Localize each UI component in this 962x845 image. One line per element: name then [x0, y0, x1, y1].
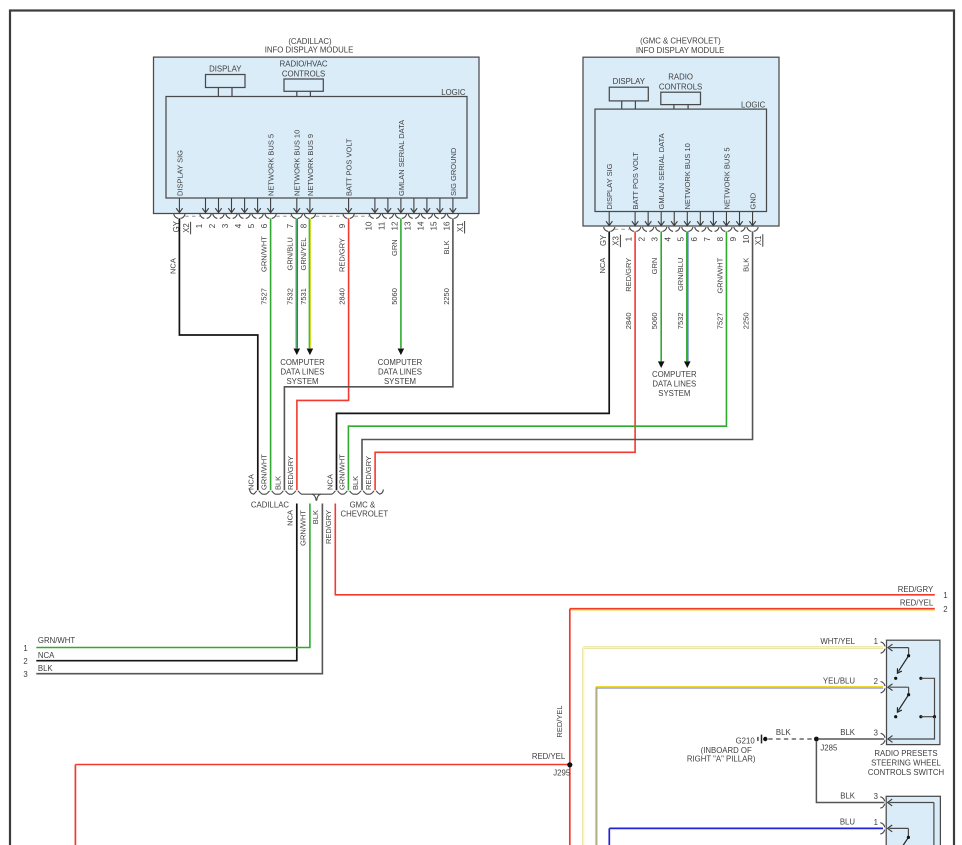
svg-text:STEERING WHEEL: STEERING WHEEL: [871, 759, 941, 768]
svg-text:BLK: BLK: [776, 728, 792, 737]
svg-text:2: 2: [23, 657, 27, 666]
svg-text:NETWORK BUS 10: NETWORK BUS 10: [293, 130, 302, 196]
svg-text:RED/YEL: RED/YEL: [900, 599, 934, 608]
svg-text:DATA LINES: DATA LINES: [281, 367, 325, 376]
svg-text:DISPLAY: DISPLAY: [209, 65, 242, 74]
svg-text:BLK: BLK: [840, 728, 856, 737]
svg-text:DATA LINES: DATA LINES: [378, 367, 422, 376]
svg-text:NCA: NCA: [38, 651, 55, 660]
svg-text:7532: 7532: [286, 288, 295, 305]
svg-text:BATT POS VOLT: BATT POS VOLT: [631, 152, 640, 210]
svg-text:SIG GROUND: SIG GROUND: [449, 147, 458, 196]
svg-text:CONTROLS: CONTROLS: [282, 69, 325, 78]
svg-text:GRN/BLU: GRN/BLU: [676, 258, 685, 291]
svg-text:13: 13: [403, 221, 412, 230]
svg-text:7532: 7532: [676, 313, 685, 330]
svg-text:5: 5: [677, 236, 686, 241]
svg-text:COMPUTER: COMPUTER: [280, 358, 325, 367]
svg-text:COMPUTER: COMPUTER: [378, 358, 423, 367]
svg-text:BATT POS VOLT: BATT POS VOLT: [345, 138, 354, 196]
svg-text:DISPLAY SIG: DISPLAY SIG: [605, 163, 614, 209]
svg-text:RED/GRY: RED/GRY: [338, 238, 347, 272]
svg-text:GRN/BLU: GRN/BLU: [286, 237, 295, 270]
svg-text:G210: G210: [736, 736, 756, 745]
svg-text:(CADILLAC): (CADILLAC): [288, 37, 332, 46]
svg-text:DISPLAY: DISPLAY: [613, 77, 646, 86]
svg-text:BLK: BLK: [442, 240, 451, 254]
svg-text:GRN: GRN: [390, 239, 399, 256]
svg-text:NCA: NCA: [247, 474, 256, 490]
svg-text:1: 1: [874, 818, 878, 827]
svg-text:RED/GRY: RED/GRY: [364, 456, 373, 490]
svg-text:CHEVROLET: CHEVROLET: [340, 510, 388, 519]
svg-text:CONTROLS: CONTROLS: [659, 82, 702, 91]
svg-text:GRN/WHT: GRN/WHT: [299, 510, 308, 546]
svg-text:GMLAN SERIAL DATA: GMLAN SERIAL DATA: [397, 120, 406, 196]
svg-text:3: 3: [874, 792, 878, 801]
svg-text:15: 15: [429, 221, 438, 230]
svg-text:2: 2: [638, 236, 647, 241]
svg-text:NETWORK BUS 10: NETWORK BUS 10: [683, 143, 692, 209]
svg-text:GRN/YEL: GRN/YEL: [299, 238, 308, 271]
svg-text:3: 3: [23, 670, 27, 679]
svg-text:NCA: NCA: [325, 474, 334, 490]
svg-text:8: 8: [299, 223, 308, 228]
svg-text:GRN/WHT: GRN/WHT: [260, 236, 269, 272]
svg-text:3: 3: [221, 223, 230, 228]
svg-text:X1: X1: [456, 222, 465, 232]
svg-text:COMPUTER: COMPUTER: [652, 370, 697, 379]
svg-text:2840: 2840: [624, 313, 633, 330]
svg-text:5060: 5060: [390, 288, 399, 305]
svg-text:4: 4: [664, 236, 673, 241]
svg-text:LOGIC: LOGIC: [441, 88, 466, 97]
svg-text:NETWORK BUS 9: NETWORK BUS 9: [306, 134, 315, 196]
svg-text:7: 7: [703, 236, 712, 241]
svg-text:GY: GY: [599, 234, 608, 246]
svg-text:8: 8: [716, 236, 725, 241]
svg-text:BLU: BLU: [840, 818, 856, 827]
svg-text:LOGIC: LOGIC: [741, 100, 766, 109]
svg-text:RED/YEL: RED/YEL: [532, 752, 566, 761]
svg-text:GRN/WHT: GRN/WHT: [337, 454, 346, 490]
svg-text:4: 4: [234, 223, 243, 228]
svg-text:7527: 7527: [715, 313, 724, 330]
svg-text:7527: 7527: [260, 288, 269, 305]
svg-text:1: 1: [943, 591, 947, 600]
svg-text:NCA: NCA: [598, 258, 607, 274]
svg-text:16: 16: [442, 221, 451, 230]
svg-text:GMLAN SERIAL DATA: GMLAN SERIAL DATA: [657, 133, 666, 209]
svg-text:BLK: BLK: [311, 510, 320, 524]
svg-text:SYSTEM: SYSTEM: [384, 377, 416, 386]
svg-text:J295: J295: [553, 768, 571, 777]
svg-text:7: 7: [286, 223, 295, 228]
svg-text:GRN/WHT: GRN/WHT: [38, 636, 75, 645]
svg-text:2: 2: [874, 677, 878, 686]
svg-text:1: 1: [625, 236, 634, 241]
svg-text:DATA LINES: DATA LINES: [652, 379, 696, 388]
svg-text:6: 6: [260, 223, 269, 228]
svg-text:1: 1: [23, 644, 27, 653]
svg-text:RED/YEL: RED/YEL: [555, 705, 564, 737]
svg-text:GRN/WHT: GRN/WHT: [715, 257, 724, 293]
svg-text:BLK: BLK: [351, 476, 360, 490]
svg-text:5: 5: [247, 223, 256, 228]
svg-text:WHT/YEL: WHT/YEL: [820, 637, 855, 646]
svg-text:INFO DISPLAY MODULE: INFO DISPLAY MODULE: [265, 46, 354, 55]
svg-text:NCA: NCA: [168, 258, 177, 274]
svg-text:11: 11: [377, 221, 386, 230]
svg-text:NETWORK BUS 5: NETWORK BUS 5: [722, 147, 731, 209]
svg-text:SYSTEM: SYSTEM: [286, 377, 318, 386]
svg-text:RED/GRY: RED/GRY: [324, 510, 333, 544]
svg-text:5060: 5060: [650, 313, 659, 330]
svg-text:3: 3: [874, 729, 878, 738]
svg-text:12: 12: [390, 221, 399, 230]
svg-text:2250: 2250: [442, 288, 451, 305]
svg-text:1: 1: [874, 637, 878, 646]
svg-text:BLK: BLK: [741, 258, 750, 272]
svg-text:9: 9: [338, 223, 347, 228]
svg-text:DISPLAY SIG: DISPLAY SIG: [175, 150, 184, 196]
svg-text:GND: GND: [748, 192, 757, 209]
svg-text:YEL/BLU: YEL/BLU: [823, 676, 855, 685]
svg-text:14: 14: [416, 221, 425, 230]
svg-text:RIGHT "A" PILLAR): RIGHT "A" PILLAR): [687, 755, 756, 764]
svg-text:RED/GRY: RED/GRY: [898, 585, 934, 594]
svg-text:CONTROLS SWITCH: CONTROLS SWITCH: [868, 768, 944, 777]
svg-text:RED/GRY: RED/GRY: [624, 258, 633, 292]
svg-text:X1: X1: [754, 236, 763, 246]
svg-text:SYSTEM: SYSTEM: [658, 389, 690, 398]
svg-text:GRN/WHT: GRN/WHT: [260, 454, 269, 490]
svg-text:7531: 7531: [299, 288, 308, 305]
svg-text:X2: X2: [182, 223, 191, 233]
svg-text:RED/GRY: RED/GRY: [286, 456, 295, 490]
svg-text:NETWORK BUS 5: NETWORK BUS 5: [267, 134, 276, 196]
svg-text:3: 3: [651, 236, 660, 241]
svg-text:INFO DISPLAY MODULE: INFO DISPLAY MODULE: [636, 46, 725, 55]
svg-text:2250: 2250: [741, 313, 750, 330]
svg-text:GRN: GRN: [650, 258, 659, 275]
svg-text:10: 10: [742, 234, 751, 243]
svg-text:1: 1: [195, 223, 204, 228]
svg-text:BLK: BLK: [38, 664, 54, 673]
svg-text:RADIO: RADIO: [668, 73, 693, 82]
svg-text:2840: 2840: [338, 288, 347, 305]
svg-text:RADIO PRESETS: RADIO PRESETS: [874, 749, 937, 758]
svg-text:BLK: BLK: [273, 476, 282, 490]
svg-text:6: 6: [690, 236, 699, 241]
svg-text:9: 9: [729, 236, 738, 241]
svg-text:X3: X3: [612, 236, 621, 246]
svg-text:2: 2: [208, 223, 217, 228]
svg-text:(GMC & CHEVROLET): (GMC & CHEVROLET): [640, 37, 721, 46]
svg-text:NCA: NCA: [285, 510, 294, 526]
svg-text:10: 10: [364, 221, 373, 230]
svg-text:CADILLAC: CADILLAC: [251, 500, 290, 509]
svg-text:BLK: BLK: [840, 792, 856, 801]
svg-text:RADIO/HVAC: RADIO/HVAC: [280, 60, 328, 69]
svg-text:GMC &: GMC &: [350, 500, 376, 509]
svg-text:2: 2: [943, 605, 947, 614]
svg-text:J285: J285: [820, 744, 838, 753]
